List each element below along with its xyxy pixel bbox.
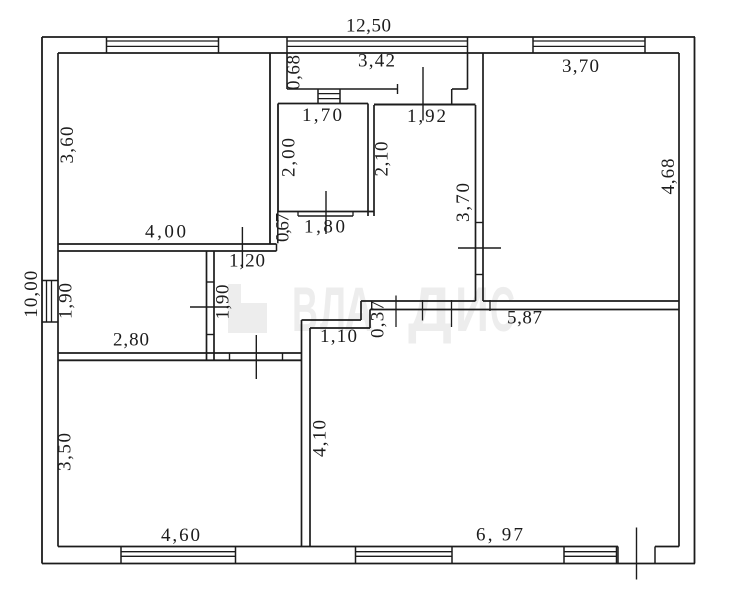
vestibule bottom a (287, 88, 398, 90)
svg-text:2,10: 2,10 (372, 142, 393, 177)
svg-text:0,37: 0,37 (368, 301, 389, 338)
outer wall right inner (678, 53, 680, 547)
outer wall right outer (694, 37, 696, 564)
wall jog upper (302, 319, 362, 321)
window WL line2 (51, 281, 53, 323)
door D2 leaf (241, 227, 243, 268)
window W5 cap right (451, 547, 453, 564)
door D4 tick right (282, 353, 284, 360)
door D1 jamb left (617, 547, 619, 564)
vest window line2 (318, 98, 340, 100)
svg-text:0,67: 0,67 (273, 213, 294, 242)
outer wall left outer (41, 37, 43, 564)
wall H3 upper b (483, 300, 679, 302)
vest window cap right (339, 89, 341, 104)
wall C left (206, 251, 208, 360)
window W3 cap right (644, 37, 646, 53)
window W2 cap right (467, 37, 469, 53)
window WL cap bottom (42, 321, 58, 323)
door D1 jamb right (654, 547, 656, 564)
bathroom top (278, 103, 368, 105)
window W3 cap left (532, 37, 534, 53)
wall jog lower (310, 327, 370, 329)
window W3 line1 (533, 40, 645, 42)
window W1 line1 (107, 40, 219, 42)
hall-vestibule connector (451, 89, 453, 105)
window W4 cap left (120, 547, 122, 564)
vestibule bottom b (452, 88, 468, 90)
door D3 tick bottom (207, 334, 215, 336)
svg-text:2,80: 2,80 (113, 330, 149, 351)
window W1 cap right (218, 37, 220, 53)
svg-text:5,87: 5,87 (507, 308, 542, 329)
bathroom left (277, 104, 279, 212)
svg-text:4,10: 4,10 (310, 420, 331, 457)
svg-text:1,92: 1,92 (407, 106, 446, 127)
tick T3 (451, 300, 453, 327)
outer wall bottom inner b (655, 546, 679, 548)
window WL line1 (46, 281, 48, 323)
window W2 line1 (287, 40, 468, 42)
wall H1 upper (58, 352, 302, 354)
svg-text:3,70: 3,70 (453, 183, 474, 222)
wall A living-left (269, 53, 271, 244)
window W5 line2 (356, 555, 453, 557)
bathroom threshold cap R (352, 212, 354, 217)
tick T1 (395, 296, 397, 328)
watermark house icon (228, 284, 267, 333)
window W5 line1 (356, 551, 453, 553)
window W5 cap left (355, 547, 357, 564)
wall bath-corridor stub (277, 212, 279, 244)
bathroom bottom (278, 211, 374, 213)
wall H3 upper a (361, 300, 476, 302)
wall B end cap (276, 244, 278, 251)
vestibule right (467, 53, 469, 89)
vestibule left (286, 53, 288, 89)
window W6 cap right (616, 547, 618, 564)
door D7 leaf (325, 191, 327, 234)
window W3 line2 (533, 45, 645, 47)
wall B upper (58, 243, 277, 245)
tick T4 (489, 300, 491, 311)
hall top wall (374, 104, 476, 106)
window W1 line2 (107, 45, 219, 47)
svg-text:10,00: 10,00 (21, 271, 42, 318)
bathroom right outer (373, 105, 375, 216)
window W6 cap left (563, 547, 565, 564)
wall G right (482, 53, 484, 301)
svg-text:3,42: 3,42 (358, 51, 395, 72)
window WL cap top (42, 280, 58, 282)
svg-text:4,68: 4,68 (658, 159, 679, 195)
door D3 tick top (207, 281, 215, 283)
outer wall top inner (58, 52, 679, 54)
svg-text:1,80: 1,80 (304, 217, 345, 238)
vest window cap left (317, 89, 319, 104)
wall H3 lower (370, 309, 679, 311)
wall jog vert outer (360, 301, 362, 320)
bathroom threshold (298, 215, 353, 217)
outer wall top outer (42, 36, 695, 38)
window W1 cap left (106, 37, 108, 53)
svg-text:4,60: 4,60 (161, 525, 200, 546)
svg-text:1,70: 1,70 (302, 105, 342, 126)
svg-text:3,50: 3,50 (55, 433, 76, 471)
wall V1 left (301, 320, 303, 547)
door D5 leaf (458, 247, 501, 249)
door D6 leaf (422, 67, 424, 121)
svg-text:1,90: 1,90 (213, 285, 234, 320)
door D3 leaf (190, 306, 229, 308)
svg-text:3,60: 3,60 (57, 127, 78, 164)
door D4 leaf (255, 335, 257, 379)
wall H1 lower (58, 359, 301, 361)
svg-text:3,70: 3,70 (562, 56, 599, 77)
svg-text:4,00: 4,00 (145, 222, 186, 243)
outer wall bottom inner a (58, 546, 618, 548)
door D1 leaf (636, 528, 638, 580)
window W4 line1 (121, 551, 236, 553)
window W2 cap left (286, 37, 288, 53)
svg-text:12,50: 12,50 (346, 16, 391, 37)
svg-text:1,90: 1,90 (56, 283, 77, 319)
svg-text:0,68: 0,68 (284, 55, 305, 90)
svg-text:1,10: 1,10 (320, 326, 357, 347)
bathroom threshold cap L (297, 212, 299, 217)
window W6 line2 (564, 555, 617, 557)
door D5 tick bottom (476, 274, 484, 276)
door D6 jamb (397, 84, 399, 94)
window W4 cap right (235, 547, 237, 564)
svg-text:2,00: 2,00 (279, 138, 300, 177)
door D4 tick left (229, 353, 231, 360)
wall G left (475, 105, 477, 301)
bathroom right inner (367, 104, 369, 217)
wall V1 right (309, 328, 311, 547)
outer wall bottom outer (42, 563, 695, 565)
wall jog vert inner (369, 310, 371, 329)
tick T2 (422, 300, 424, 321)
window W4 line2 (121, 555, 236, 557)
door D5 tick top (476, 222, 484, 224)
wall B lower (58, 250, 277, 252)
svg-text:1,20: 1,20 (229, 251, 265, 272)
vest window line1 (318, 93, 340, 95)
svg-text:В: В (292, 275, 318, 345)
outer wall left inner (57, 53, 59, 547)
window W6 line1 (564, 551, 617, 553)
wall C right (213, 251, 215, 360)
window W2 line2 (287, 45, 468, 47)
